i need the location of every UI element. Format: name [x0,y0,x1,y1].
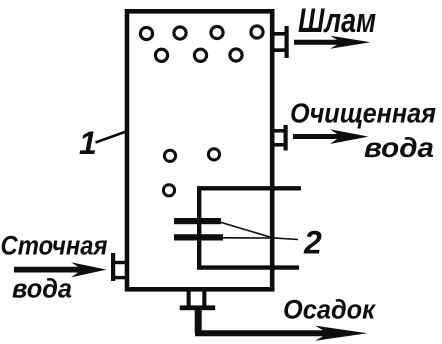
svg-text:2: 2 [303,225,322,261]
svg-text:Сточная: Сточная [1,231,108,261]
nozzle bottom (sediment outlet): pipe walls [187,290,191,306]
svg-text:1: 1 [79,125,97,161]
nozzle left (waste water inlet): pipe walls [114,261,127,264]
nozzle top-right flange [285,26,289,58]
tank 1 (flotation chamber outline) [127,11,272,289]
svg-text:вода: вода [12,274,72,304]
leader line from upper electrode to node 2 [218,222,272,238]
nozzle top-right (sludge outlet): pipe walls [272,32,286,36]
bubble row2 c6 [194,49,206,61]
nozzle mid-right flange [284,125,288,151]
leader line from label 1 to tank wall [96,131,128,143]
bubble row1 c1 [140,27,152,39]
arrow Шлам [294,36,371,49]
drain pipe elbow [195,310,202,333]
svg-text:Осадок: Осадок [283,295,376,325]
bubble mid B [208,149,219,160]
electrode plate lower [174,234,223,240]
bubble mid C [163,185,174,196]
leader line stub to label 2 [272,238,299,240]
nozzle mid-right (clean water outlet): pipe walls [272,129,285,133]
arrow Осадок (drain line with arrowhead) [195,326,368,341]
leader line from lower electrode to node 2 [221,237,272,239]
nozzle bottom flange [180,305,216,310]
bubble row1 c2 [174,27,186,39]
bubble row2 c5 [155,49,167,61]
svg-text:Шлам: Шлам [298,2,376,40]
svg-text:Очищенная: Очищенная [290,98,436,129]
arrow Очищенная вода [293,129,369,144]
bubble row1 c4 [251,26,263,38]
svg-text:вода: вода [364,132,434,163]
bubble row2 c7 [230,49,242,61]
electrode chamber 2 (inner box, open right) [197,188,301,267]
nozzle left flange [111,253,115,281]
bubble mid A [164,150,175,161]
arrow Сточная вода [14,262,107,277]
electrode plate upper [174,218,221,224]
bubble row1 c3 [211,26,223,38]
